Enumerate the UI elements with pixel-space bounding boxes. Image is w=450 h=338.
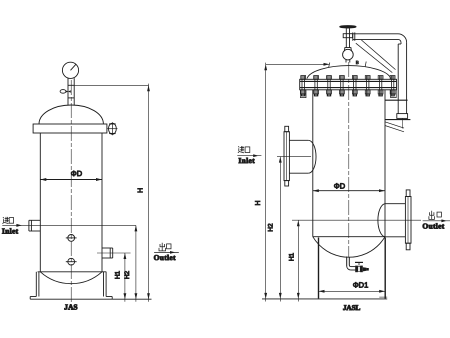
air vent valve (top) — [340, 26, 356, 63]
top dome (right vessel) — [307, 66, 391, 79]
outlet centerline — [97, 252, 131, 254]
dome tick marks — [329, 60, 367, 68]
svg-text:ΦD1: ΦD1 — [353, 281, 369, 290]
stem valve — [60, 90, 71, 94]
inlet nozzle (left stub) — [29, 220, 40, 231]
dimension H2 (right vessel) — [268, 157, 282, 302]
flange clamp bolt — [107, 122, 117, 135]
svg-text:JAS: JAS — [64, 303, 78, 312]
svg-text:Inlet: Inlet — [2, 226, 19, 235]
vent pipe (horizontal + elbow + vertical) — [353, 32, 407, 113]
vertical centerline — [70, 80, 72, 303]
svg-text:JASL: JASL — [343, 303, 361, 312]
gauge stem — [68, 78, 74, 105]
outlet flange (right vessel) — [405, 190, 411, 250]
drain pipe + valve — [347, 257, 369, 273]
svg-text:ΦD: ΦD — [71, 169, 83, 178]
outlet arrow (right) — [423, 219, 450, 222]
dimension H2 (left vessel) — [124, 225, 137, 301]
support skirt (right) — [319, 238, 386, 299]
dimension PhiD1 — [319, 281, 386, 293]
dimension H1 (right vessel) — [288, 220, 299, 301]
svg-text:ΦD: ΦD — [334, 182, 346, 191]
outlet label (Chinese 出口) — [159, 243, 171, 251]
inlet arrow — [16, 224, 21, 227]
svg-text:H2: H2 — [124, 270, 131, 279]
outlet centerline (right) — [292, 219, 421, 221]
support skirt — [36, 272, 106, 297]
svg-text:H1: H1 — [288, 252, 295, 261]
vessel body shell (right) — [313, 90, 385, 237]
bolted flange band — [300, 79, 397, 90]
outlet nozzle (right stub) — [102, 248, 113, 258]
bottom dished head (right) — [313, 237, 385, 258]
dimension H (right vessel) — [255, 63, 329, 302]
skirt feet — [30, 297, 112, 300]
skirt foot step — [379, 296, 387, 298]
svg-text:B: B — [356, 60, 359, 65]
vertical centerline (right) — [348, 62, 350, 257]
svg-text:H: H — [137, 188, 144, 193]
dimension H1 (left vessel) — [115, 253, 127, 302]
pressure gauge PG — [62, 62, 78, 78]
bottom dished head — [38, 272, 107, 284]
outlet arrow — [154, 251, 179, 254]
flange bolts (8 studs) — [301, 76, 395, 96]
vessel body shell — [40, 133, 102, 272]
svg-text:Inlet: Inlet — [238, 156, 255, 165]
outlet label CN (right) — [429, 211, 442, 220]
inlet label (Chinese 进口) — [3, 217, 14, 224]
svg-text:H2: H2 — [268, 223, 275, 232]
inlet flange (right vessel) — [284, 126, 289, 186]
top dome (dished head) — [39, 105, 103, 124]
inlet centerline — [2, 224, 136, 226]
inlet centerline (right) — [277, 156, 311, 158]
inlet nozzle neck — [289, 140, 316, 173]
flange end brackets — [300, 90, 396, 98]
svg-text:H1: H1 — [115, 270, 122, 279]
svg-text:Outlet: Outlet — [154, 253, 176, 262]
pipe support brackets — [385, 100, 411, 132]
inlet arrow (right) — [237, 154, 261, 157]
hex fitting upper on centerline — [66, 235, 77, 242]
svg-text:Outlet: Outlet — [422, 222, 444, 231]
flange band — [33, 124, 107, 133]
outlet nozzle (right vessel) — [378, 204, 406, 237]
pipe coupling flange — [397, 114, 408, 119]
ground baseline — [30, 298, 151, 300]
dimension H (left vessel) — [74, 84, 150, 302]
ground baseline (right) — [262, 298, 387, 300]
hex fitting lower on centerline — [66, 258, 77, 265]
inlet label CN (right) — [238, 146, 250, 153]
diagonal braces — [356, 40, 396, 73]
dimension PhiD (left) — [40, 169, 102, 181]
svg-text:H: H — [255, 200, 262, 205]
dimension PhiD (right) — [313, 182, 385, 193]
